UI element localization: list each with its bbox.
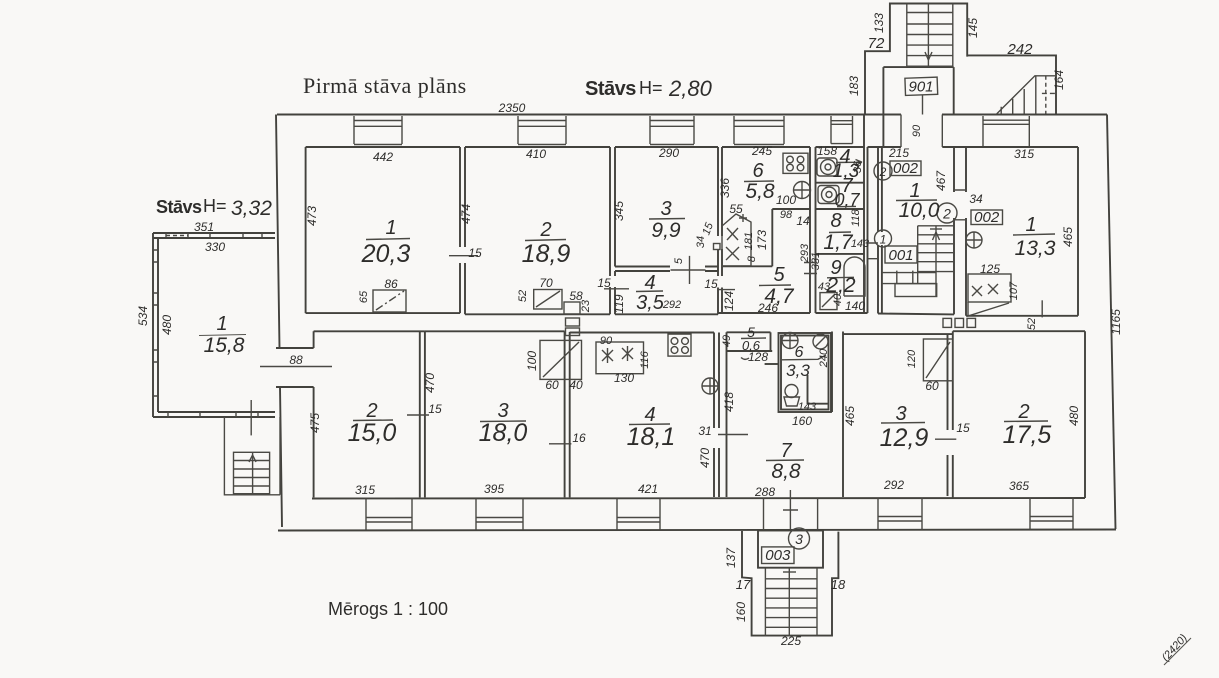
svg-text:86: 86: [384, 277, 398, 291]
svg-text:242: 242: [1006, 41, 1033, 58]
svg-text:2: 2: [942, 206, 951, 222]
svg-text:130: 130: [614, 371, 634, 385]
svg-text:119: 119: [612, 294, 626, 313]
svg-text:330: 330: [205, 240, 225, 254]
svg-text:345: 345: [612, 201, 626, 221]
svg-text:6: 6: [752, 160, 764, 182]
svg-text:2: 2: [879, 165, 887, 179]
svg-text:288: 288: [754, 485, 775, 499]
svg-text:13,3: 13,3: [1015, 237, 1056, 260]
svg-text:3: 3: [795, 531, 803, 547]
svg-text:003: 003: [765, 547, 791, 564]
svg-text:480: 480: [1067, 406, 1081, 426]
svg-text:15: 15: [597, 276, 611, 290]
svg-text:Pirmā stāva plāns: Pirmā stāva plāns: [303, 73, 467, 98]
svg-text:H=: H=: [203, 196, 227, 216]
svg-text:49: 49: [721, 335, 733, 347]
svg-text:116: 116: [639, 350, 651, 368]
svg-text:1165: 1165: [1109, 309, 1123, 335]
svg-text:70: 70: [539, 276, 553, 290]
svg-text:15,8: 15,8: [204, 334, 245, 357]
svg-text:002: 002: [893, 160, 919, 177]
svg-text:1: 1: [880, 233, 887, 247]
svg-text:292: 292: [662, 299, 681, 311]
svg-text:18: 18: [831, 577, 846, 592]
svg-text:72: 72: [868, 35, 885, 52]
svg-text:100: 100: [776, 193, 796, 207]
svg-text:470: 470: [423, 373, 437, 393]
svg-text:160: 160: [792, 414, 812, 428]
svg-text:60: 60: [925, 379, 939, 393]
svg-text:H=: H=: [639, 78, 663, 98]
svg-text:133: 133: [872, 13, 886, 33]
svg-text:901: 901: [908, 79, 933, 96]
svg-text:331: 331: [810, 252, 822, 270]
svg-text:43: 43: [818, 281, 831, 293]
svg-text:34: 34: [969, 192, 983, 206]
svg-text:40: 40: [832, 293, 844, 306]
svg-text:465: 465: [1061, 227, 1075, 247]
svg-text:12,9: 12,9: [880, 424, 929, 452]
svg-text:470: 470: [698, 448, 712, 468]
svg-text:8: 8: [746, 255, 758, 262]
svg-text:2: 2: [539, 219, 551, 241]
svg-text:365: 365: [1009, 479, 1029, 493]
svg-text:442: 442: [373, 150, 393, 164]
svg-text:18,1: 18,1: [627, 423, 676, 451]
svg-text:240: 240: [818, 348, 830, 368]
svg-text:3,5: 3,5: [636, 292, 665, 314]
svg-text:5,8: 5,8: [745, 180, 775, 203]
svg-text:15: 15: [468, 246, 482, 260]
svg-text:1: 1: [1025, 214, 1036, 236]
svg-text:107: 107: [1008, 281, 1020, 300]
svg-text:34: 34: [695, 236, 707, 248]
svg-text:9,9: 9,9: [651, 219, 681, 242]
svg-text:60: 60: [545, 378, 559, 392]
svg-text:164: 164: [1052, 70, 1066, 90]
svg-text:7: 7: [780, 440, 792, 462]
svg-text:90: 90: [600, 335, 613, 347]
svg-text:8: 8: [830, 210, 841, 232]
svg-text:246: 246: [757, 301, 778, 315]
svg-text:183: 183: [847, 76, 861, 96]
svg-text:118: 118: [850, 208, 862, 226]
svg-text:225: 225: [780, 634, 801, 648]
svg-text:88: 88: [289, 353, 303, 367]
svg-text:15: 15: [956, 421, 970, 435]
svg-text:40: 40: [569, 378, 583, 392]
svg-text:1: 1: [216, 313, 227, 335]
svg-text:Stāvs: Stāvs: [156, 197, 202, 217]
svg-text:52: 52: [517, 290, 529, 302]
svg-text:18,0: 18,0: [479, 419, 528, 447]
svg-text:55: 55: [729, 202, 743, 216]
svg-text:474: 474: [459, 204, 473, 224]
svg-text:465: 465: [843, 406, 857, 426]
svg-text:158: 158: [817, 144, 837, 158]
svg-text:315: 315: [1014, 147, 1034, 161]
svg-text:20,3: 20,3: [361, 240, 411, 268]
svg-text:351: 351: [194, 220, 214, 234]
svg-text:17: 17: [736, 577, 751, 592]
svg-text:14: 14: [796, 214, 810, 228]
svg-text:173: 173: [755, 230, 769, 250]
svg-text:140: 140: [845, 299, 865, 313]
svg-text:143: 143: [851, 238, 870, 250]
svg-text:65: 65: [358, 290, 370, 303]
svg-text:124: 124: [722, 291, 736, 311]
svg-text:128: 128: [748, 350, 768, 364]
svg-text:5: 5: [673, 257, 685, 264]
svg-text:215: 215: [888, 146, 909, 160]
svg-text:18,9: 18,9: [522, 240, 571, 268]
svg-text:475: 475: [308, 413, 322, 433]
svg-text:15: 15: [428, 402, 442, 416]
svg-text:315: 315: [355, 483, 375, 497]
svg-text:001: 001: [888, 247, 913, 264]
svg-text:90: 90: [911, 124, 923, 137]
svg-text:1: 1: [385, 217, 396, 239]
svg-text:98: 98: [780, 209, 793, 221]
svg-text:125: 125: [980, 262, 1000, 276]
svg-text:245: 245: [751, 144, 772, 158]
svg-text:473: 473: [305, 206, 319, 226]
svg-text:10,0: 10,0: [899, 199, 940, 222]
svg-text:292: 292: [883, 478, 904, 492]
svg-text:145: 145: [966, 18, 980, 38]
svg-text:410: 410: [526, 147, 546, 161]
svg-text:137: 137: [724, 547, 738, 568]
svg-text:120: 120: [906, 349, 918, 368]
svg-text:418: 418: [722, 392, 736, 412]
svg-text:290: 290: [658, 146, 679, 160]
svg-text:52: 52: [1026, 318, 1038, 330]
svg-text:336: 336: [718, 178, 732, 198]
svg-text:3,32: 3,32: [231, 197, 272, 220]
svg-text:17,5: 17,5: [1003, 421, 1052, 449]
svg-text:100: 100: [525, 351, 539, 371]
svg-text:467: 467: [934, 170, 948, 191]
svg-text:002: 002: [974, 209, 1000, 226]
svg-text:23: 23: [580, 299, 592, 313]
svg-text:2: 2: [1017, 401, 1029, 423]
svg-text:2350: 2350: [498, 101, 526, 115]
svg-text:5: 5: [773, 264, 785, 286]
svg-text:395: 395: [484, 482, 504, 496]
svg-text:8,8: 8,8: [771, 460, 801, 483]
svg-text:2,80: 2,80: [668, 76, 713, 101]
svg-text:421: 421: [638, 482, 658, 496]
svg-text:6: 6: [795, 344, 804, 361]
svg-text:3: 3: [895, 403, 906, 425]
svg-text:160: 160: [734, 602, 748, 622]
svg-text:36: 36: [852, 160, 864, 173]
svg-text:15,0: 15,0: [348, 419, 397, 447]
svg-text:480: 480: [160, 315, 174, 335]
svg-text:Mērogs 1 : 100: Mērogs 1 : 100: [328, 599, 448, 619]
svg-text:143: 143: [798, 401, 817, 413]
svg-text:Stāvs: Stāvs: [585, 78, 636, 100]
svg-text:15: 15: [704, 277, 718, 291]
svg-text:3: 3: [660, 198, 671, 220]
svg-text:31: 31: [698, 424, 711, 438]
svg-text:181: 181: [743, 232, 755, 250]
svg-text:534: 534: [136, 306, 150, 326]
svg-text:3,3: 3,3: [786, 361, 810, 380]
svg-text:16: 16: [572, 431, 586, 445]
svg-text:1,7: 1,7: [823, 231, 854, 254]
